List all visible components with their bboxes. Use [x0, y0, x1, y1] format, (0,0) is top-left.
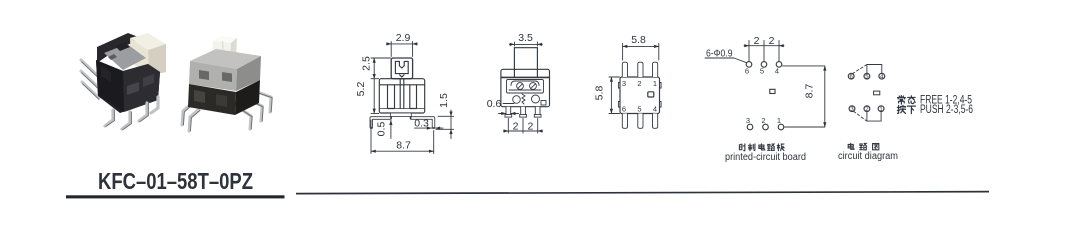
svg-text:2.5: 2.5	[361, 56, 373, 71]
svg-text:4: 4	[653, 105, 657, 114]
svg-text:1: 1	[653, 79, 657, 88]
side view: pins	[505, 107, 541, 117]
svg-text:2.9: 2.9	[396, 32, 411, 44]
svg-text:5: 5	[865, 75, 869, 81]
circuit: pusher mark	[874, 91, 880, 95]
pcb: hole 1	[778, 124, 784, 130]
svg-text:3.5: 3.5	[518, 32, 533, 44]
side view: interior upper band	[501, 76, 549, 78]
svg-text:5.8: 5.8	[631, 34, 646, 46]
pcb: hole 3	[747, 124, 753, 130]
black lower body of switch 2	[188, 84, 236, 115]
pcb: hole 2	[763, 124, 769, 130]
svg-text:2: 2	[769, 35, 775, 47]
circuit: terminal 5	[864, 73, 870, 79]
rear dark mass of switch 1	[97, 33, 141, 63]
side view: body	[501, 69, 550, 106]
white push button of switch 2	[212, 36, 237, 59]
svg-text:6: 6	[745, 67, 749, 76]
circuit: wire 3-2 (dashed, push)	[854, 111, 867, 120]
top view: body	[620, 77, 660, 114]
svg-text:4: 4	[775, 67, 779, 76]
photo: switch sample 1 (tilted)	[81, 33, 166, 130]
rule (thin, right)	[296, 191, 989, 195]
dimension 3.5 (side view top)	[510, 42, 543, 46]
dimension 2 2 (pcb top)	[744, 41, 784, 62]
pcb: hole 4	[776, 62, 782, 68]
top view: side key tabs	[618, 83, 661, 108]
svg-text:8.7: 8.7	[804, 84, 816, 99]
circuit: state note line 1 常态 FREE 1-2,4-5	[898, 96, 916, 104]
side view: lower mechanism	[513, 96, 521, 104]
svg-text:5: 5	[637, 105, 641, 114]
svg-text:0.5: 0.5	[376, 122, 388, 137]
pcb: polarity mark	[770, 89, 775, 93]
circuit: wire 2-1 (solid bridge)	[867, 112, 881, 122]
svg-text:3: 3	[746, 116, 750, 125]
svg-text:3: 3	[622, 79, 626, 88]
front view: right slot	[410, 85, 417, 109]
circuit: wire 6-5 (dashed, push)	[853, 65, 867, 74]
svg-text:2: 2	[513, 121, 519, 133]
svg-text:0.6: 0.6	[487, 98, 502, 110]
top view: polarity mark	[648, 92, 654, 97]
dimension 1.5 (front view right)	[436, 110, 454, 139]
front view: centre pedestal under body	[390, 113, 411, 116]
dimension 0.5 (front view)	[390, 120, 392, 138]
circuit: state note line 2 按下 PUSH 2-3,5-6	[897, 105, 915, 113]
side view: contact chamber + pin heads	[511, 81, 539, 86]
front view: right metal wing bracket	[411, 118, 433, 127]
circuit: terminal 4	[879, 73, 885, 79]
svg-text:2: 2	[527, 121, 533, 133]
legs of switch 2	[182, 91, 271, 131]
dimension 8.7 (front view bottom)	[371, 120, 434, 154]
grey upper body of switch 2	[190, 49, 261, 69]
body of switch 1 (dark)	[96, 60, 160, 113]
side view: button stem	[514, 48, 537, 77]
underline rule (thick, left)	[66, 195, 285, 198]
svg-text:0.3: 0.3	[414, 117, 429, 129]
circuit: wire 5-4 (solid bridge)	[867, 65, 882, 74]
front view: spring cutout in button	[395, 61, 408, 73]
front view: left metal wing bracket	[371, 118, 390, 127]
svg-text:5: 5	[760, 67, 764, 76]
pins of switch 1 (left side)	[81, 60, 99, 98]
cream button block of switch 1	[130, 33, 166, 50]
circuit: terminal 3	[849, 106, 855, 112]
dimension 2 2 (side view bottom)	[504, 119, 543, 134]
svg-text:8.7: 8.7	[396, 140, 411, 152]
svg-text:4: 4	[880, 75, 884, 81]
svg-text:2: 2	[761, 116, 765, 125]
circuit: caption 电 路 图	[848, 143, 879, 150]
svg-text:circuit diagram: circuit diagram	[838, 151, 898, 162]
svg-text:PUSH 2-3,5-6: PUSH 2-3,5-6	[920, 104, 973, 116]
front view: body	[379, 79, 424, 113]
svg-text:6: 6	[622, 105, 626, 114]
dimension 8.7 (pcb right)	[783, 66, 825, 127]
dimension 2.9 (front view top)	[387, 42, 418, 57]
front view: button stem	[391, 58, 412, 79]
pcb: caption 印制电路板	[739, 144, 784, 151]
dimension 5.8 (top view left)	[609, 77, 620, 114]
top view: pins (upper row)	[622, 62, 657, 77]
circuit: terminal 6	[848, 73, 854, 79]
circuit: terminal 1	[878, 106, 884, 112]
svg-text:6: 6	[850, 75, 854, 81]
dimension 5.8 (top view top)	[623, 44, 659, 61]
svg-text:printed-circuit board: printed-circuit board	[725, 152, 806, 163]
pcb: hole 6	[746, 62, 752, 68]
metal plate on top of switch 1	[104, 44, 146, 70]
front view: left slot	[388, 85, 395, 109]
svg-text:1.5: 1.5	[438, 93, 450, 108]
svg-text:KFC–01–58T–0PZ: KFC–01–58T–0PZ	[98, 168, 253, 194]
svg-text:2: 2	[637, 79, 641, 88]
dimension 0.3 (front view)	[415, 127, 444, 129]
pcb: hole 5	[761, 62, 767, 68]
dimension 0.6 (side view pin)	[499, 113, 519, 115]
circuit: terminal 2	[864, 106, 870, 112]
svg-text:5.2: 5.2	[355, 82, 367, 97]
photo: switch sample 2 (upright)	[182, 36, 272, 131]
svg-text:2: 2	[754, 35, 760, 47]
body face details of switch 1	[127, 82, 139, 95]
pins of switch 1 (bottom)	[105, 97, 158, 129]
front view: interior top line	[380, 84, 424, 86]
front view: interior bottom line	[380, 108, 424, 110]
svg-text:3: 3	[850, 107, 854, 113]
svg-text:5.8: 5.8	[594, 86, 606, 101]
top view: pins (lower row)	[622, 114, 657, 129]
front view: centre stem	[400, 79, 404, 109]
dimension 2.5 / 5.2 (front view left)	[371, 58, 391, 113]
svg-text:1: 1	[777, 116, 781, 125]
